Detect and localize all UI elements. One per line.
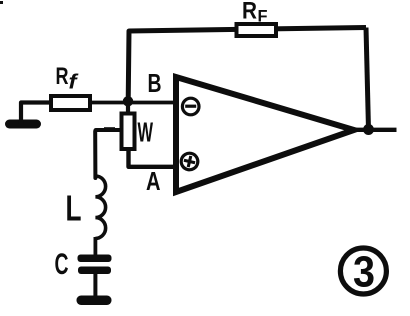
resistor RF (feedback): [237, 24, 277, 36]
inductor L coil: [95, 176, 105, 238]
wire node B down into potentiometer W: [126, 101, 130, 116]
svg-text:F: F: [258, 7, 268, 26]
svg-text:B: B: [148, 68, 162, 98]
label Rf: [56, 63, 80, 94]
node B junction dot: [123, 96, 133, 106]
svg-text:3: 3: [353, 248, 375, 297]
op-amp inverting input symbol (minus circle): [182, 98, 199, 115]
ground (left input ground): [5, 120, 41, 129]
op-amp non-inverting input symbol (plus circle): [180, 152, 200, 172]
label RF: [242, 0, 268, 26]
wire capacitor to ground: [93, 271, 97, 299]
capacitor C top plate: [78, 255, 112, 263]
wire Rf to node B to op-amp inverting input: [90, 101, 175, 105]
svg-text:C: C: [55, 248, 69, 281]
potentiometer W body: [122, 114, 135, 150]
svg-text:W: W: [138, 117, 154, 148]
wire feedback: node B up and across the top: [128, 28, 366, 102]
wire output stub: [354, 128, 397, 132]
svg-text:L: L: [66, 188, 82, 229]
wire feedback right side down to output node: [366, 28, 369, 130]
scan speck top-left corner: [0, 1, 3, 4]
wire W bottom to node A to op-amp non-inverting input: [129, 147, 177, 167]
output junction dot: [363, 124, 374, 135]
svg-text:R: R: [56, 63, 69, 90]
wire wiper of W going left then down: [95, 130, 121, 178]
wire ground to Rf (vertical + horizontal): [21, 103, 51, 125]
wiper ink blob: [104, 127, 115, 131]
svg-text:A: A: [146, 166, 161, 196]
op-amp U1 triangle: [176, 77, 354, 192]
ground (bottom of C branch): [77, 296, 112, 306]
wire coil to capacitor: [94, 237, 98, 257]
svg-text:R: R: [242, 0, 257, 25]
resistor Rf: [51, 96, 90, 110]
capacitor C bottom plate: [78, 267, 111, 275]
figure number 3 (circled): [340, 248, 386, 297]
